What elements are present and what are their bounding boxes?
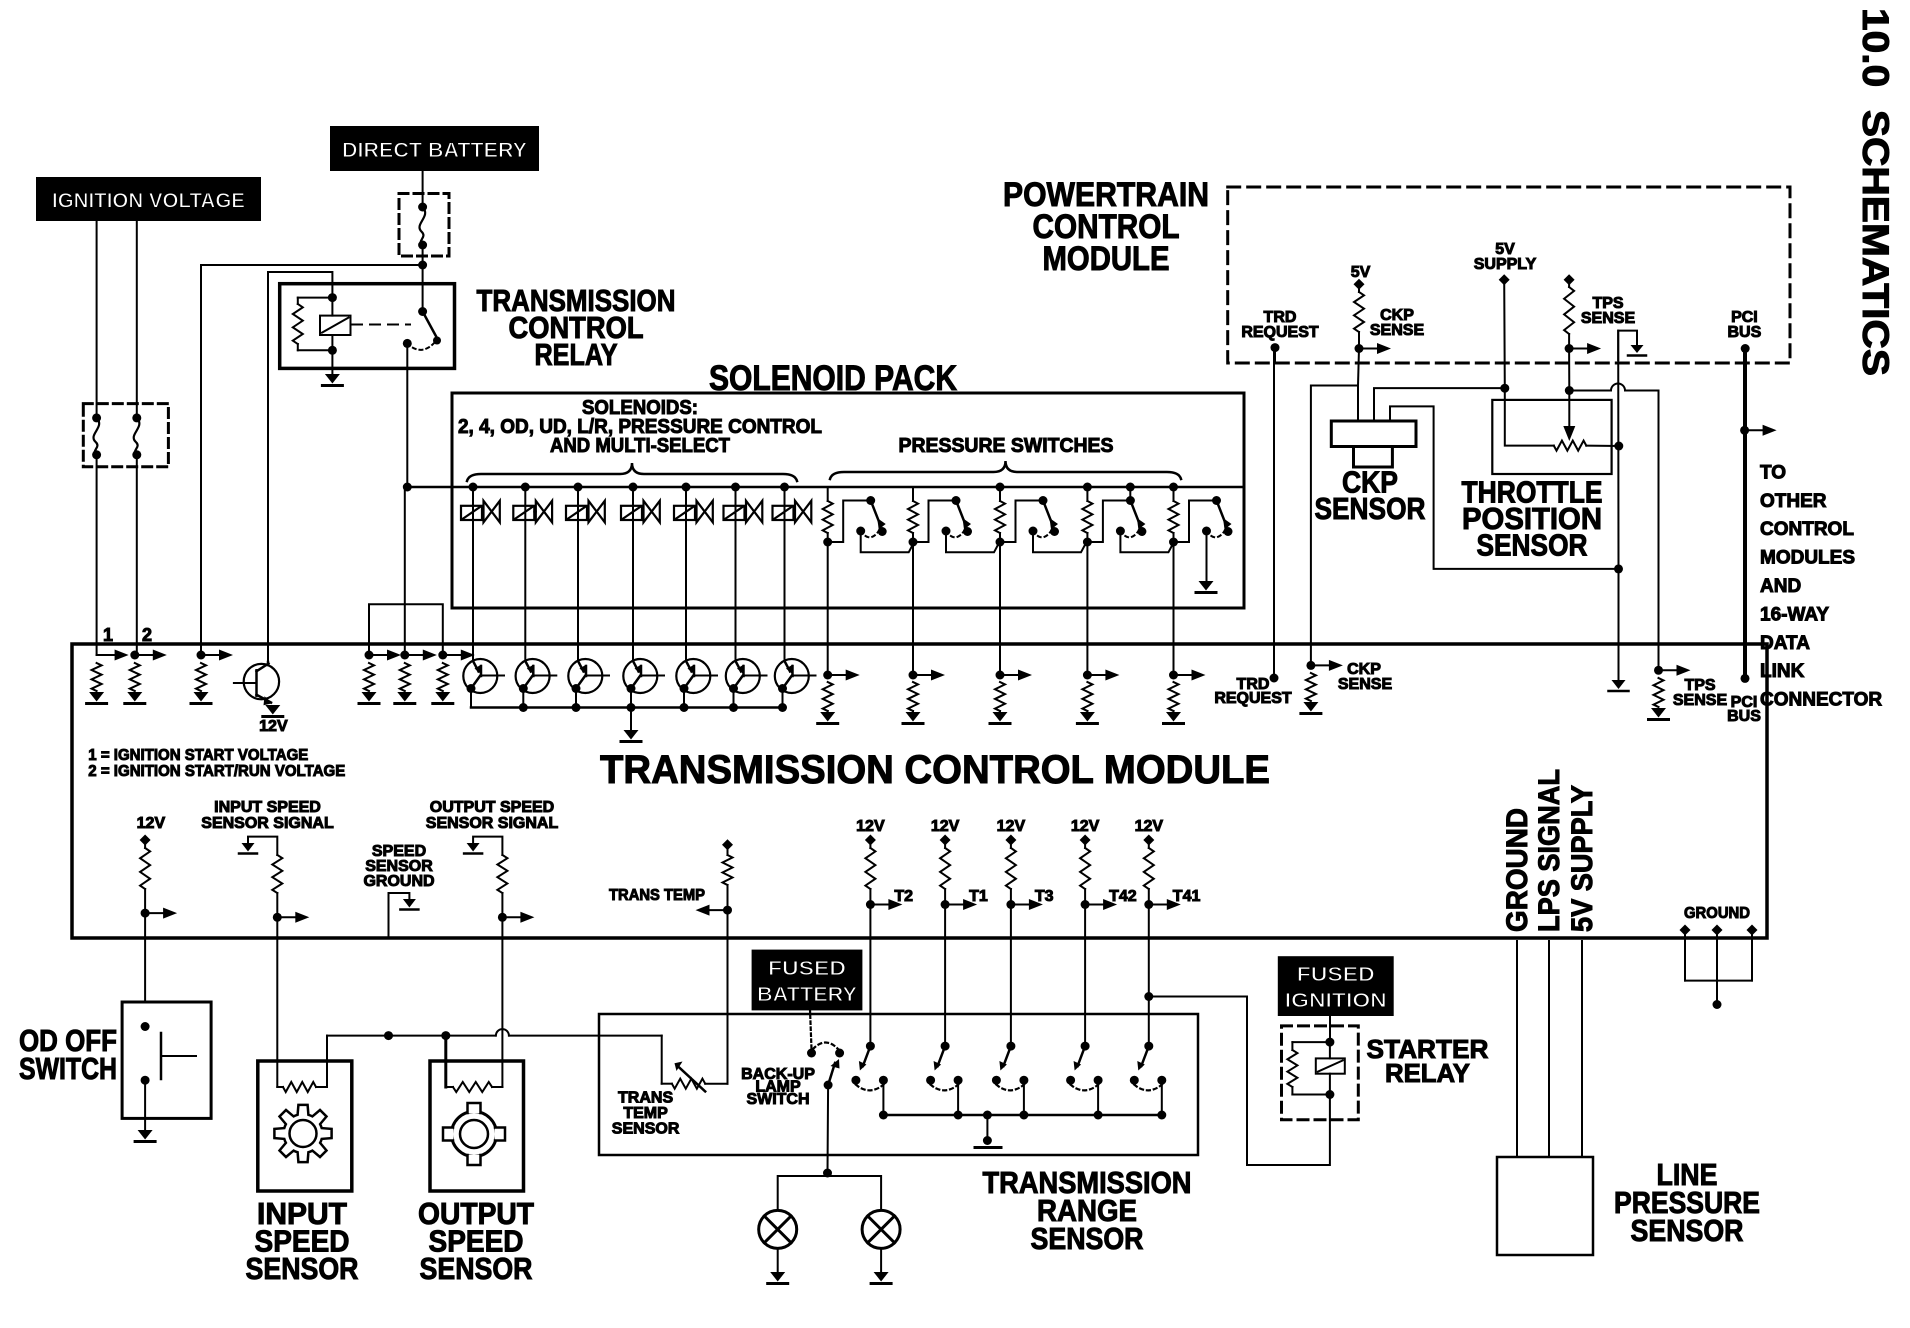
fuse F1 bbox=[92, 413, 101, 422]
svg-text:12V: 12V bbox=[1071, 818, 1100, 835]
wire pressure column 3 down bbox=[999, 542, 1001, 675]
node input speed junction bbox=[273, 913, 282, 922]
net label FUSED BATTERY bbox=[753, 951, 862, 1010]
relay K1 mechanical link bbox=[352, 324, 410, 326]
wire lamp right ground bbox=[880, 1248, 882, 1272]
node relay coil bottom bbox=[328, 346, 337, 355]
wire fused battery dotted bbox=[810, 1009, 812, 1049]
wire LPS ground bbox=[1516, 941, 1518, 1157]
solenoid L2 bbox=[513, 506, 534, 520]
solenoid L5 bbox=[674, 506, 695, 520]
net label IGNITION VOLTAGE bbox=[37, 178, 260, 220]
svg-text:GROUND: GROUND bbox=[1684, 905, 1750, 922]
wire solenoid 4 column bbox=[632, 487, 634, 661]
wire pressure switch 3 to next bbox=[1033, 531, 1087, 552]
fuse F3 bbox=[418, 203, 427, 212]
svg-text:SENSOR: SENSOR bbox=[1477, 528, 1588, 563]
resistor output sensor bbox=[446, 1086, 453, 1088]
net label DIRECT BATTERY bbox=[331, 127, 538, 170]
starter relay parallel resistor bbox=[1292, 1041, 1330, 1043]
transistor Q5 (solenoid driver 4) bbox=[623, 659, 657, 693]
pin input speed signal bbox=[248, 837, 277, 855]
node TPS sense junction bbox=[1565, 344, 1574, 353]
ground (OD switch) bbox=[138, 1130, 153, 1140]
svg-text:5V SUPPLY: 5V SUPPLY bbox=[1566, 785, 1599, 932]
wire 5V supply down bbox=[1503, 280, 1506, 389]
node pressure junction 4 bbox=[1083, 538, 1092, 547]
lamp left bbox=[759, 1210, 797, 1248]
svg-text:SENSOR: SENSOR bbox=[1631, 1213, 1744, 1248]
svg-text:TRANS: TRANS bbox=[618, 1090, 673, 1107]
pin 12V T3 bbox=[1005, 835, 1016, 846]
pin 12V OD bbox=[140, 835, 151, 846]
wire TPS 5V supply bbox=[1505, 388, 1554, 445]
wire pressure switch 1 to next bbox=[861, 531, 915, 552]
pin ignition x134 bbox=[130, 651, 139, 660]
wire pressure column 4 down bbox=[1086, 542, 1088, 675]
od off switch box bbox=[122, 1002, 211, 1118]
wire emitter 1 bbox=[470, 689, 472, 708]
svg-text:PRESSURE SWITCHES: PRESSURE SWITCHES bbox=[899, 435, 1114, 457]
wire CKP sense from PCM bbox=[1358, 349, 1359, 386]
svg-text:T2: T2 bbox=[894, 888, 913, 905]
node ground common bbox=[1713, 1000, 1722, 1009]
svg-text:GROUND: GROUND bbox=[1501, 808, 1534, 932]
switch range T3 bbox=[1006, 1042, 1015, 1051]
svg-text:MODULES: MODULES bbox=[1760, 548, 1855, 569]
wire sensor ground distribution bbox=[327, 1035, 496, 1037]
pin trans temp bbox=[722, 839, 733, 850]
pin relay common bbox=[400, 651, 409, 660]
svg-text:TRANS TEMP: TRANS TEMP bbox=[609, 887, 705, 904]
svg-text:10.0 SCHEMATICS: 10.0 SCHEMATICS bbox=[1855, 8, 1896, 376]
svg-text:AND MULTI-SELECT: AND MULTI-SELECT bbox=[550, 435, 730, 457]
node starter coil top bbox=[1325, 1038, 1334, 1047]
switch range T42 bbox=[1081, 1042, 1090, 1051]
svg-text:REQUEST: REQUEST bbox=[1214, 690, 1292, 707]
pin TPS pullup bbox=[1564, 274, 1575, 285]
node relay coil top bbox=[328, 293, 337, 302]
node PCI BUS pin (TCM) bbox=[1741, 674, 1750, 683]
transmission control module box bbox=[72, 644, 1767, 938]
solenoid L6 bbox=[724, 506, 745, 520]
switch OD OFF bbox=[141, 1022, 150, 1031]
transistor Q2 (solenoid driver 1) bbox=[463, 659, 497, 693]
pin ground bbox=[1680, 925, 1691, 936]
ground (range sensor) bbox=[983, 1136, 992, 1145]
node pressure junction 2 bbox=[909, 538, 918, 547]
pin relay sense 1 bbox=[365, 651, 374, 660]
relay K1 switch bbox=[418, 307, 427, 316]
brace pressure switches bbox=[830, 461, 1181, 479]
transistor Q3 (solenoid driver 2) bbox=[516, 659, 550, 693]
pressure switch PS1 bbox=[828, 501, 871, 543]
svg-text:12V: 12V bbox=[1135, 818, 1164, 835]
node range bus bbox=[1157, 1111, 1166, 1120]
svg-text:1: 1 bbox=[103, 625, 113, 645]
pin 5V CKP bbox=[1354, 279, 1365, 290]
wire emitter 6 bbox=[733, 689, 735, 708]
svg-text:AND: AND bbox=[1760, 576, 1801, 597]
relay K1 coil top wire bbox=[268, 272, 332, 662]
wire to pin2 bbox=[136, 455, 138, 655]
node pressure junction 1 bbox=[823, 538, 832, 547]
wire emitter 3 bbox=[575, 689, 577, 708]
pin 12V T41 bbox=[1143, 835, 1154, 846]
fuse box (ignition) bbox=[83, 404, 168, 467]
svg-text:MODULE: MODULE bbox=[1043, 240, 1170, 278]
wire solenoid 1 column bbox=[472, 487, 474, 661]
node T3 junction bbox=[1006, 900, 1015, 909]
wire LPS 5V bbox=[1581, 941, 1583, 1157]
svg-text:SENSOR SIGNAL: SENSOR SIGNAL bbox=[201, 815, 334, 832]
svg-text:TO: TO bbox=[1760, 462, 1786, 483]
relay K1 parallel resistor bbox=[298, 297, 333, 299]
pressure switch PS5 bbox=[1174, 501, 1217, 543]
wire relay coil to ground bbox=[331, 350, 333, 374]
node bus solenoid 5 bbox=[682, 483, 691, 492]
resistor input sensor bbox=[277, 1086, 283, 1088]
transistor Q7 (solenoid driver 6) bbox=[726, 659, 760, 693]
wire input sensor internal bbox=[276, 1061, 278, 1087]
pin 12V T1 bbox=[940, 835, 951, 846]
gear icon (output speed sensor) bbox=[443, 1103, 505, 1165]
ground (relay coil) bbox=[325, 374, 340, 384]
node 5V supply junction bbox=[1500, 384, 1509, 393]
wire T41 down bbox=[1148, 905, 1150, 1047]
node bus solenoid 3 bbox=[574, 483, 583, 492]
node PCI BUS (PCM) bbox=[1741, 344, 1750, 353]
wire pressure switch 4 top contact to bus bbox=[1129, 487, 1131, 501]
wire range T3 to bus bbox=[1023, 1080, 1025, 1115]
wire pressure column 1 down bbox=[827, 542, 829, 675]
svg-text:GROUND: GROUND bbox=[363, 873, 434, 890]
solenoid L3 bbox=[566, 506, 587, 520]
wire ignition 1 bbox=[96, 220, 98, 418]
svg-text:CONTROL: CONTROL bbox=[1760, 519, 1854, 540]
gear icon (input speed sensor) bbox=[274, 1105, 331, 1162]
node bus pressure 3 bbox=[996, 483, 1005, 492]
wire PCI BUS bbox=[1743, 349, 1747, 679]
svg-text:12V: 12V bbox=[931, 818, 960, 835]
wire T3 down bbox=[1010, 905, 1012, 1047]
node bus pressure 4 bbox=[1083, 483, 1092, 492]
wire LPS signal bbox=[1548, 941, 1550, 1157]
wire CKP ground terminal bbox=[1390, 406, 1619, 569]
potentiometer TPS bbox=[1554, 441, 1587, 451]
ground (sensor return at TCM) bbox=[1612, 680, 1626, 689]
node CKP sense junction bbox=[1355, 344, 1364, 353]
wire CKP 5V terminal bbox=[1374, 388, 1505, 421]
node bus solenoid 2 bbox=[521, 483, 530, 492]
svg-text:12V: 12V bbox=[997, 818, 1026, 835]
wire pressure column 5 down bbox=[1173, 542, 1175, 675]
svg-text:TEMP: TEMP bbox=[623, 1105, 668, 1122]
svg-text:SWITCH: SWITCH bbox=[746, 1091, 809, 1108]
wire battery to relay bbox=[422, 245, 424, 312]
svg-text:SWITCH: SWITCH bbox=[19, 1051, 117, 1086]
wire range T2 to bus bbox=[882, 1080, 884, 1115]
lamp right bbox=[862, 1210, 900, 1248]
wire emitter 7 bbox=[782, 689, 784, 708]
wire range T41 to bus bbox=[1161, 1080, 1163, 1115]
node ground-output bbox=[441, 1031, 450, 1040]
solenoid L4 bbox=[621, 506, 642, 520]
pressure switch PS4 bbox=[1087, 501, 1130, 543]
svg-text:BATTERY: BATTERY bbox=[757, 984, 858, 1006]
brace solenoids bbox=[467, 463, 797, 481]
wire TPS sense to TCM bbox=[1569, 390, 1611, 392]
wire emitter bus ground stub bbox=[630, 708, 632, 731]
wire solenoid 6 column bbox=[735, 487, 737, 661]
ground (output speed hook) bbox=[467, 843, 480, 852]
solenoid L1 bbox=[461, 506, 482, 520]
starter relay coil bbox=[1329, 1042, 1331, 1058]
svg-text:FUSED: FUSED bbox=[768, 958, 846, 980]
node TPS sense tap bbox=[1565, 386, 1574, 395]
svg-text:SENSOR: SENSOR bbox=[246, 1251, 359, 1286]
node T41 tap bbox=[1144, 992, 1153, 1001]
svg-text:TRANSMISSION CONTROL MODULE: TRANSMISSION CONTROL MODULE bbox=[600, 748, 1270, 792]
node range ground stub bbox=[983, 1111, 992, 1120]
pin 5V SUPPLY bbox=[1499, 274, 1510, 285]
svg-text:RELAY: RELAY bbox=[535, 337, 618, 372]
wire solenoid 2 column bbox=[524, 487, 526, 661]
transistor Q1 (relay driver) bbox=[244, 664, 279, 699]
node PCI tap bbox=[1740, 426, 1749, 435]
svg-text:16-WAY: 16-WAY bbox=[1760, 604, 1829, 625]
wire output speed down bbox=[501, 917, 503, 1061]
svg-text:CONNECTOR: CONNECTOR bbox=[1760, 690, 1882, 711]
output speed sensor box bbox=[430, 1061, 524, 1191]
svg-text:2 = IGNITION START/RUN VOLTAGE: 2 = IGNITION START/RUN VOLTAGE bbox=[88, 763, 345, 780]
svg-text:BUS: BUS bbox=[1727, 708, 1761, 725]
relay K1 coil bbox=[331, 298, 333, 316]
node range bus bbox=[954, 1111, 963, 1120]
node emitter junction bbox=[627, 703, 636, 712]
pressure switch PS3 bbox=[1000, 501, 1043, 543]
pin CKP SENSE (TCM) bbox=[1306, 661, 1315, 670]
node relay bus junction bbox=[403, 483, 412, 492]
pin pressure 5 bbox=[1169, 671, 1178, 680]
node 12V OD junction bbox=[141, 909, 150, 918]
node bus pressure 5 bbox=[1169, 483, 1178, 492]
pin pressure 4 bbox=[1083, 671, 1092, 680]
wire back-up lamp down bbox=[827, 1085, 830, 1173]
svg-text:RELAY: RELAY bbox=[1385, 1058, 1470, 1088]
wire direct battery bbox=[422, 170, 424, 207]
pin ignition x96 bbox=[97, 654, 115, 656]
pin 12V T42 bbox=[1080, 835, 1091, 846]
pressure switch resistor R1 bbox=[827, 487, 829, 501]
wire solenoid bus bbox=[407, 486, 1244, 489]
node emitter junction bbox=[519, 703, 528, 712]
wire emitter 2 bbox=[522, 689, 524, 708]
node T2 junction bbox=[866, 900, 875, 909]
wire sensor ground vertical bbox=[1617, 331, 1619, 569]
transmission range sensor box bbox=[599, 1014, 1198, 1155]
wire solenoid 3 column bbox=[577, 487, 579, 661]
switch range T1 bbox=[941, 1042, 950, 1051]
svg-text:SENSE: SENSE bbox=[1338, 676, 1393, 693]
svg-text:T1: T1 bbox=[969, 888, 988, 905]
pin pressure 1 bbox=[823, 671, 832, 680]
ground (pressure switch 5) bbox=[1199, 581, 1214, 591]
TPS box bbox=[1492, 400, 1611, 474]
wire range sensor bus bbox=[883, 1114, 1162, 1117]
transistor Q4 (solenoid driver 3) bbox=[568, 659, 602, 693]
wire 12V to OD switch bbox=[144, 913, 146, 1002]
node bus solenoid 7 bbox=[780, 483, 789, 492]
wire T2 down bbox=[869, 905, 871, 1047]
svg-text:SENSOR: SENSOR bbox=[1315, 491, 1426, 526]
svg-text:SENSE: SENSE bbox=[1370, 322, 1425, 339]
wire emitter 5 bbox=[683, 689, 685, 708]
node range bus bbox=[879, 1111, 888, 1120]
node trans temp junction bbox=[723, 906, 732, 915]
wire relay common down bbox=[406, 343, 408, 487]
powertrain control module box bbox=[1228, 187, 1790, 363]
svg-text:INPUT SPEED: INPUT SPEED bbox=[214, 799, 321, 816]
node battery junction bbox=[418, 261, 427, 270]
pin output speed signal bbox=[473, 837, 502, 855]
svg-text:SENSE: SENSE bbox=[1581, 310, 1636, 327]
relay K1 box bbox=[280, 284, 455, 369]
wire solenoid 7 column bbox=[784, 487, 786, 661]
svg-text:IGNITION: IGNITION bbox=[1285, 990, 1387, 1012]
svg-text:T3: T3 bbox=[1035, 888, 1054, 905]
wire OD to ground bbox=[144, 1080, 146, 1130]
wire TPS sense down bbox=[1568, 349, 1570, 391]
switch range T41 bbox=[1144, 1042, 1153, 1051]
solenoid L7 bbox=[773, 506, 794, 520]
pin speed sensor ground bbox=[389, 893, 410, 938]
switch back-up lamp bbox=[807, 1049, 816, 1058]
pressure switch resistor R2 bbox=[912, 487, 914, 501]
svg-text:LPS SIGNAL: LPS SIGNAL bbox=[1533, 769, 1566, 932]
wire solenoid 5 column bbox=[685, 487, 687, 661]
fuse box (direct battery) bbox=[399, 194, 449, 257]
wire lamp bracket bbox=[778, 1176, 881, 1210]
wire CKP sense branch to TCM bbox=[1311, 386, 1358, 666]
node emitter junction bbox=[729, 703, 738, 712]
pin pressure 3 bbox=[996, 671, 1005, 680]
wire emitter 4 bbox=[630, 689, 632, 708]
node emitter junction bbox=[572, 703, 581, 712]
wire to pin1 bbox=[96, 455, 98, 655]
switch range T2 bbox=[866, 1042, 875, 1051]
node range bus bbox=[1019, 1111, 1028, 1120]
wire pressure switch 4 to next bbox=[1120, 531, 1174, 552]
wire range T42 to bus bbox=[1097, 1080, 1099, 1115]
svg-text:12V: 12V bbox=[856, 818, 885, 835]
input speed sensor box bbox=[258, 1061, 352, 1191]
node relay common bbox=[403, 339, 412, 348]
transistor Q6 (solenoid driver 5) bbox=[676, 659, 710, 693]
node starter coil bottom bbox=[1325, 1090, 1334, 1099]
svg-text:IGNITION VOLTAGE: IGNITION VOLTAGE bbox=[52, 189, 245, 212]
svg-text:SENSOR: SENSOR bbox=[612, 1121, 680, 1138]
svg-text:SENSOR SIGNAL: SENSOR SIGNAL bbox=[426, 815, 559, 832]
svg-text:SENSOR: SENSOR bbox=[420, 1251, 533, 1286]
pin ignition x201 bbox=[197, 651, 206, 660]
node T42 junction bbox=[1081, 900, 1090, 909]
svg-text:FUSED: FUSED bbox=[1297, 964, 1375, 986]
net label FUSED IGNITION bbox=[1279, 957, 1393, 1015]
pin pressure 2 bbox=[909, 671, 918, 680]
wire battery branch left bbox=[201, 265, 423, 655]
svg-text:2: 2 bbox=[142, 625, 152, 645]
pin 12V T2 bbox=[865, 835, 876, 846]
ground (lamp right) bbox=[874, 1272, 889, 1282]
solenoid pack box bbox=[452, 393, 1244, 608]
pressure switch resistor R3 bbox=[999, 487, 1001, 501]
fuse F2 bbox=[132, 413, 141, 422]
svg-text:OTHER: OTHER bbox=[1760, 491, 1827, 512]
wire pressure switch 2 to next bbox=[946, 531, 1000, 552]
ground (PCM sensor return) bbox=[1631, 345, 1644, 353]
wire emitter bus bbox=[471, 706, 783, 709]
node sensor ground junction bbox=[1614, 564, 1623, 573]
svg-text:OUTPUT SPEED: OUTPUT SPEED bbox=[430, 799, 554, 816]
svg-text:T41: T41 bbox=[1173, 888, 1201, 905]
transistor Q8 (solenoid driver 7) bbox=[775, 659, 809, 693]
wire pressure column 2 down bbox=[912, 542, 914, 675]
node range bus bbox=[1094, 1111, 1103, 1120]
ground (speed sensor hook) bbox=[403, 899, 416, 908]
pin ground bbox=[1712, 925, 1723, 936]
trans temp sensor (variable resistor) bbox=[672, 1079, 705, 1089]
wire TRD REQUEST bbox=[1273, 349, 1275, 678]
power arrow 12V (Q1 emitter) bbox=[265, 705, 280, 715]
svg-text:SUPPLY: SUPPLY bbox=[1474, 256, 1537, 273]
ground (input speed hook) bbox=[242, 843, 255, 852]
wire TRD REQUEST (PCM) bbox=[1274, 348, 1276, 363]
node emitter junction bbox=[680, 703, 689, 712]
svg-text:12V: 12V bbox=[259, 718, 288, 735]
wire lamp left ground bbox=[777, 1248, 779, 1272]
wire T1 down bbox=[944, 905, 946, 1047]
node pressure junction 3 bbox=[996, 538, 1005, 547]
node T41 junction bbox=[1144, 900, 1153, 909]
wire hop output signal bbox=[496, 1029, 509, 1036]
wire ignition 2 bbox=[136, 220, 138, 418]
wire relay sense loop bbox=[369, 604, 443, 655]
node T1 junction bbox=[941, 900, 950, 909]
pressure switch resistor R5 bbox=[1173, 487, 1175, 501]
wire output sensor internal bbox=[444, 1036, 447, 1087]
svg-text:REQUEST: REQUEST bbox=[1241, 324, 1319, 341]
svg-text:SENSE: SENSE bbox=[1673, 692, 1728, 709]
line pressure sensor box bbox=[1497, 1157, 1593, 1255]
node lamp split bbox=[823, 1169, 832, 1178]
svg-text:1 = IGNITION START VOLTAGE: 1 = IGNITION START VOLTAGE bbox=[88, 747, 308, 764]
node ground-input bbox=[384, 1031, 393, 1040]
wire range T1 to bus bbox=[957, 1080, 959, 1115]
node emitter junction bbox=[778, 703, 787, 712]
node bus solenoid 1 bbox=[469, 483, 478, 492]
wire sensor ground hook (PCM) bbox=[1618, 331, 1637, 360]
resistor TPS pullup bbox=[1568, 280, 1570, 287]
pressure switch PS2 bbox=[913, 501, 956, 543]
svg-text:T42: T42 bbox=[1109, 888, 1137, 905]
wire starter relay loop bbox=[1149, 997, 1330, 1166]
wire relay common to pin bbox=[404, 487, 406, 655]
node bus solenoid 6 bbox=[731, 483, 740, 492]
ground (driver emitters) bbox=[624, 730, 639, 740]
wire ground to trans temp bbox=[661, 1036, 663, 1084]
wire input speed down bbox=[276, 917, 278, 1061]
